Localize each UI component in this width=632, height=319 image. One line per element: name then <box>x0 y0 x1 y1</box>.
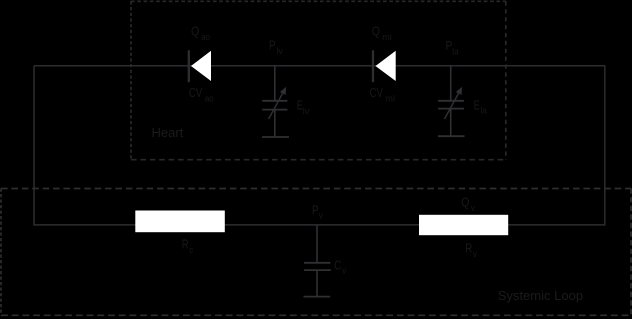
diode Q_ao (aortic valve) <box>189 50 211 82</box>
svg-text:CVao: CVao <box>189 86 214 103</box>
ground terminal of E_lv <box>262 136 289 138</box>
wire stem from top rail to E_lv <box>274 66 276 101</box>
svg-text:Rc: Rc <box>182 238 194 255</box>
wire left vertical <box>33 66 35 226</box>
svg-text:Systemic Loop: Systemic Loop <box>498 288 583 303</box>
node P_lv label <box>269 39 284 56</box>
svg-text:Qmi: Qmi <box>372 25 392 42</box>
svg-text:Qv: Qv <box>461 195 475 212</box>
wire bottom horizontal <box>34 224 605 226</box>
label CV_mi <box>370 86 396 103</box>
svg-text:Ela: Ela <box>474 98 487 115</box>
svg-text:CVmi: CVmi <box>370 86 396 103</box>
svg-text:Plv: Plv <box>269 39 284 56</box>
label Q_v <box>461 195 475 212</box>
svg-text:Elv: Elv <box>297 98 310 115</box>
ground terminal of E_la <box>438 135 465 137</box>
svg-text:Qao: Qao <box>191 25 210 42</box>
wire right vertical <box>604 66 606 226</box>
label E_lv <box>297 98 310 115</box>
label E_la <box>474 98 487 115</box>
diode Q_mi (mitral valve) <box>373 50 396 82</box>
svg-text:Rv: Rv <box>465 242 477 259</box>
label R_v <box>465 242 477 259</box>
svg-text:Pv: Pv <box>312 203 323 220</box>
capacitor C_v <box>304 263 331 297</box>
wire stem from top rail to E_la <box>450 66 452 101</box>
node P_v label <box>312 203 323 220</box>
Systemic Loop compartment dashed box <box>1 189 631 316</box>
label C_v <box>334 258 347 275</box>
svg-text:Cv: Cv <box>334 258 347 275</box>
wire top horizontal <box>34 65 605 67</box>
resistor R_c <box>135 211 225 233</box>
ground terminal of C_v <box>304 296 331 298</box>
label R_c <box>182 238 194 255</box>
capacitor E_lv (variable elastance) <box>262 87 287 137</box>
resistor R_v <box>419 215 508 235</box>
label Q_mi <box>372 25 392 42</box>
Heart compartment dashed box <box>131 1 506 159</box>
label Q_ao <box>191 25 210 42</box>
node P_la label <box>446 39 459 56</box>
label Heart <box>152 125 184 140</box>
wire stem from bottom rail to C_v <box>316 225 318 263</box>
svg-text:Pla: Pla <box>446 39 459 56</box>
svg-text:Heart: Heart <box>152 125 184 140</box>
label CV_ao <box>189 86 214 103</box>
label Systemic Loop <box>498 288 583 303</box>
capacitor E_la (variable elastance) <box>438 87 464 136</box>
